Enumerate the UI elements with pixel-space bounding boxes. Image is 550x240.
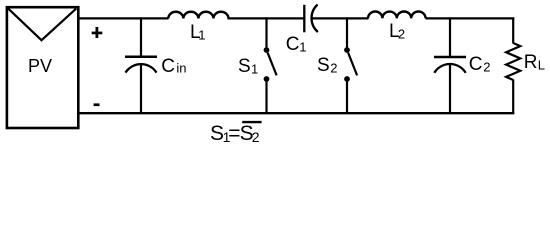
PV panel V mark bbox=[8, 9, 76, 41]
switch S2 bbox=[344, 17, 357, 113]
wire: top bus L1 to C1 bbox=[228, 17, 305, 19]
+ terminal label bbox=[92, 27, 103, 38]
svg-text:PV: PV bbox=[28, 56, 52, 76]
wire: top bus C1 to L2 bbox=[312, 17, 369, 19]
switch S1 bbox=[264, 17, 277, 113]
capacitor Cin bbox=[125, 17, 157, 113]
wire: bottom bus bbox=[77, 112, 514, 114]
capacitor C1 (series) bbox=[304, 5, 318, 33]
wire: top bus PV to L1 bbox=[78, 17, 169, 19]
resistor RL bbox=[506, 17, 520, 113]
inductor L2 bbox=[368, 11, 426, 18]
PV panel box bbox=[7, 7, 78, 128]
wire: top bus L2 to load corner bbox=[426, 17, 515, 19]
- terminal label bbox=[94, 103, 100, 106]
formula overline bbox=[242, 121, 261, 123]
inductor L1 bbox=[168, 12, 228, 19]
svg-text:S1=S2: S1=S2 bbox=[210, 122, 260, 145]
capacitor C2 bbox=[434, 17, 466, 113]
